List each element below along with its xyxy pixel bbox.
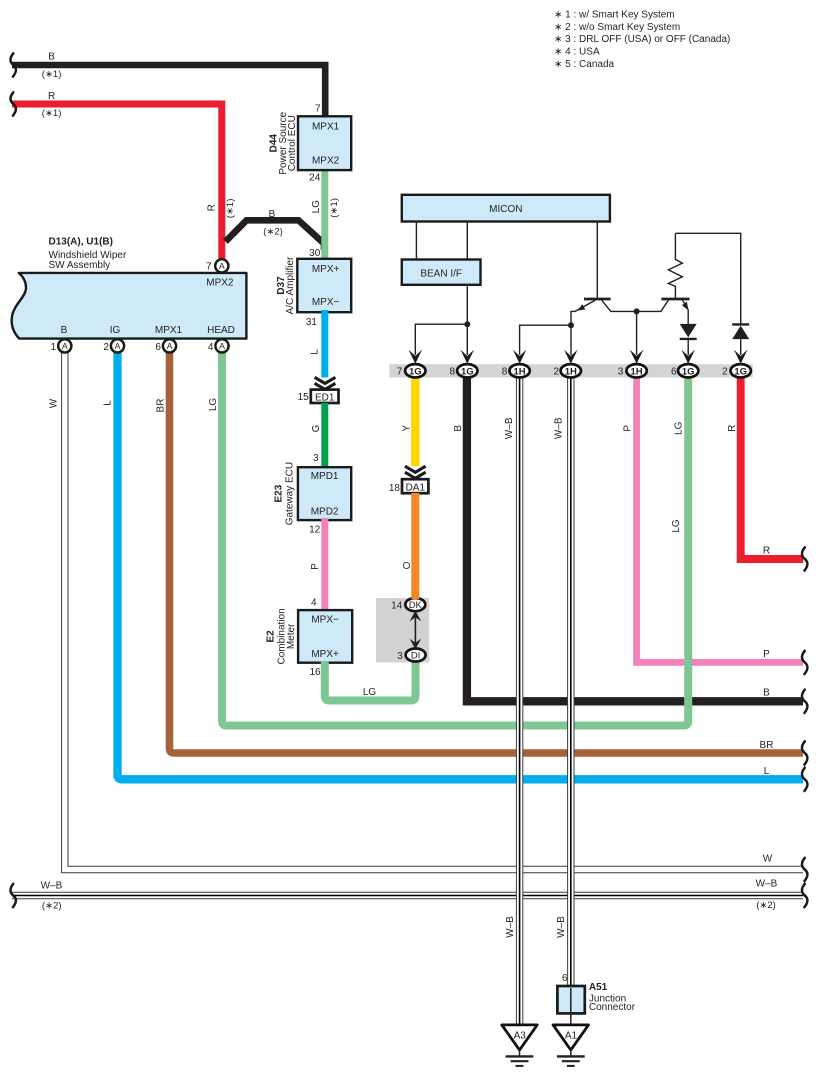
svg-text:3: 3 (397, 651, 403, 662)
svg-text:A1: A1 (565, 1030, 578, 1041)
svg-text:(∗2): (∗2) (263, 227, 283, 238)
svg-text:7: 7 (315, 104, 321, 115)
svg-text:3: 3 (618, 367, 624, 378)
connector oval DI (397, 649, 425, 662)
svg-text:MPX+: MPX+ (311, 649, 339, 660)
svg-text:1G: 1G (682, 366, 695, 377)
svg-text:1G: 1G (461, 366, 474, 377)
svg-text:(∗1): (∗1) (329, 198, 340, 218)
svg-text:MPD1: MPD1 (311, 471, 339, 482)
svg-text:∗ 5 : Canada: ∗ 5 : Canada (554, 59, 615, 70)
svg-text:MPX1: MPX1 (312, 121, 340, 132)
svg-text:Meter: Meter (286, 623, 297, 649)
svg-text:A: A (167, 341, 173, 351)
svg-text:W–B: W–B (505, 916, 516, 938)
wire W-B horizontal (*2) across bottom (12, 879, 803, 912)
connector box D13/U1 Windshield Wiper SW Assembly (12, 273, 247, 339)
wire P pink E23 pin 12 to E2 pin 4 (309, 518, 325, 611)
svg-text:8: 8 (449, 367, 455, 378)
wire R (*1) red from left edge to wiper SW pin 7 (12, 91, 236, 259)
svg-text:15: 15 (298, 392, 310, 403)
connector oval 6(1G) (671, 364, 698, 378)
svg-text:31: 31 (306, 317, 318, 328)
break squiggle right B (802, 690, 808, 713)
svg-text:LG: LG (311, 200, 322, 214)
junction dot base node (634, 308, 640, 314)
pin circle 1(A) wiper B (51, 339, 72, 353)
break squiggle left B (10, 53, 16, 76)
wire G green ED1 to E23 pin 3 (311, 403, 325, 468)
svg-text:A/C Amplifier: A/C Amplifier (285, 256, 296, 314)
box BEAN I/F (402, 260, 481, 285)
svg-text:MPX2: MPX2 (206, 277, 234, 288)
svg-text:A51: A51 (589, 982, 608, 993)
transistor Q2 (661, 299, 689, 325)
svg-text:2: 2 (103, 342, 109, 353)
wire BEAN I/F down to 8(1G) (466, 285, 468, 355)
pin circle 6(A) wiper MPX1 (155, 339, 176, 353)
svg-text:L: L (102, 400, 113, 406)
svg-text:R: R (727, 425, 738, 432)
break squiggle left R (10, 92, 16, 115)
wire LG green wiper HEAD pin 4 to 6(1G) (208, 352, 688, 725)
svg-text:∗ 2 : w/o Smart Key System: ∗ 2 : w/o Smart Key System (554, 22, 680, 33)
svg-text:R: R (763, 546, 770, 557)
bus arrow 7(1G) (409, 350, 423, 364)
svg-text:R: R (48, 91, 55, 102)
ECU box E23 Gateway ECU (274, 462, 352, 525)
svg-text:8: 8 (502, 367, 508, 378)
svg-text:MPX1: MPX1 (155, 325, 183, 336)
svg-text:(∗2): (∗2) (42, 901, 62, 912)
svg-text:P: P (623, 425, 634, 432)
transistor Q1 (571, 299, 668, 325)
box MICON (402, 195, 610, 222)
ground A1 (553, 1025, 588, 1066)
svg-text:W–B: W–B (41, 881, 63, 892)
bus arrow 8(1H) (513, 350, 527, 364)
wire W-B vertical 8(1H) to ground A3 (504, 377, 520, 1025)
svg-text:MPX−: MPX− (311, 614, 339, 625)
connector DA1 (389, 479, 429, 494)
svg-text:P: P (310, 563, 321, 570)
wire resistor top to 2(1G) diode (675, 233, 740, 324)
svg-text:A: A (115, 341, 121, 351)
svg-text:LG: LG (363, 687, 377, 698)
break squiggle right W (802, 858, 808, 881)
wire B black 8(1G) to right edge (453, 377, 803, 701)
wiper SW assembly labels (49, 237, 127, 271)
connector oval 7(1G) (397, 364, 426, 378)
svg-text:1H: 1H (631, 366, 643, 377)
svg-text:Control ECU: Control ECU (287, 115, 298, 171)
svg-text:Gateway ECU: Gateway ECU (285, 462, 296, 525)
wire L blue wiper IG pin 2 to right edge (102, 352, 803, 779)
bus arrow 8(1G) (461, 350, 475, 364)
svg-text:SW Assembly: SW Assembly (49, 260, 111, 271)
svg-text:O: O (402, 561, 413, 569)
svg-text:D13(A), U1(B): D13(A), U1(B) (49, 237, 113, 248)
svg-text:W–B: W–B (556, 916, 567, 938)
svg-text:B: B (453, 425, 464, 432)
svg-text:LG: LG (208, 398, 219, 412)
wire MICON to transistor Q1 collector (596, 222, 598, 298)
svg-text:BEAN I/F: BEAN I/F (420, 269, 462, 280)
svg-text:12: 12 (309, 525, 321, 536)
svg-text:Y: Y (401, 425, 412, 432)
wire Q1 emitter to 8(1H) and 2(1H) (520, 325, 571, 355)
wire W white wiper B pin 1 to right edge (48, 352, 803, 869)
svg-text:P: P (763, 649, 770, 660)
svg-text:4: 4 (311, 597, 317, 608)
bus bar 1G/1H junction block (389, 364, 753, 377)
ECU box D37 A/C Amplifier (276, 256, 351, 314)
break squiggle right BR (802, 741, 808, 764)
svg-text:∗ 1 : w/ Smart Key System: ∗ 1 : w/ Smart Key System (554, 9, 675, 20)
svg-text:18: 18 (389, 483, 401, 494)
svg-text:W: W (763, 854, 773, 865)
wire B (*1) black from left edge to D44 pin 7 (12, 52, 325, 117)
svg-text:DA1: DA1 (406, 483, 426, 494)
svg-text:DK: DK (409, 600, 423, 611)
wire L blue D37 pin 31 to ED1 (306, 310, 325, 378)
pin circle 4(A) wiper HEAD (208, 339, 229, 353)
wire MICON to BEAN I/F right (466, 222, 468, 260)
svg-text:MPX2: MPX2 (312, 155, 340, 166)
svg-text:4: 4 (208, 342, 214, 353)
svg-text:B: B (269, 209, 276, 220)
svg-text:E2: E2 (266, 630, 277, 643)
svg-text:(∗1): (∗1) (42, 108, 62, 119)
wire P pink 3(1H) to right edge (623, 377, 803, 662)
svg-text:24: 24 (309, 173, 321, 184)
svg-text:MICON: MICON (489, 204, 522, 215)
svg-text:MPX+: MPX+ (312, 264, 340, 275)
svg-text:LG: LG (674, 421, 685, 435)
svg-text:LG: LG (671, 519, 682, 533)
svg-text:BR: BR (156, 399, 167, 413)
bus arrow 2(1G) (734, 350, 748, 364)
legend notes (554, 9, 730, 70)
svg-text:(∗1): (∗1) (42, 69, 62, 80)
svg-text:R: R (206, 204, 217, 211)
bus arrow 3(1H) (630, 350, 644, 364)
double arrow between DK and DI (410, 611, 422, 649)
svg-text:(∗1): (∗1) (225, 199, 236, 219)
connector oval DK (391, 598, 425, 611)
svg-text:L: L (310, 349, 321, 355)
svg-text:E23: E23 (274, 484, 285, 502)
wire BR brown wiper MPX1 pin 6 to right edge (156, 352, 804, 753)
svg-text:7: 7 (206, 261, 212, 272)
break squiggle left W-B (10, 884, 16, 907)
svg-text:MPD2: MPD2 (311, 506, 339, 517)
svg-text:1H: 1H (565, 366, 577, 377)
svg-text:∗ 3 : DRL OFF (USA) or OFF (Ca: ∗ 3 : DRL OFF (USA) or OFF (Canada) (554, 34, 730, 45)
ECU box D44 Power Source Control ECU (269, 104, 352, 175)
wire Y yellow 7(1G) to DA1 (401, 377, 415, 466)
junction dot at BEAN branch (464, 321, 470, 327)
ECU box E2 Combination Meter (266, 608, 353, 678)
gray zone around DK DI (376, 598, 429, 662)
connector oval 2(1G) (722, 364, 751, 378)
bus arrow 2(1H) (564, 350, 578, 364)
pin 7(A) circle top of wiper SW (206, 259, 228, 272)
chevron arrow into DA1 (405, 466, 426, 478)
svg-text:3: 3 (313, 453, 319, 464)
svg-text:W: W (48, 398, 59, 408)
connector oval 2(1H) (553, 364, 581, 378)
diode D1 down at 6(1G) (680, 324, 697, 355)
svg-text:6: 6 (155, 342, 161, 353)
svg-text:7: 7 (397, 367, 403, 378)
svg-text:L: L (764, 766, 770, 777)
svg-text:1G: 1G (734, 366, 747, 377)
wire LG (*1) green D44 pin 24 to D37 pin 30 (309, 168, 340, 260)
svg-text:30: 30 (309, 248, 321, 259)
svg-text:B: B (48, 52, 55, 63)
svg-text:ED1: ED1 (315, 392, 335, 403)
diode D2 up at 2(1G) (732, 324, 749, 355)
svg-text:16: 16 (309, 667, 321, 678)
pin circle 2(A) wiper IG (103, 339, 124, 353)
resistor above Q2 (668, 233, 682, 299)
wire W-B vertical 2(1H) to A51 (554, 377, 571, 987)
bus arrow 6(1G) (681, 350, 695, 364)
svg-text:6: 6 (671, 367, 677, 378)
connector oval 3(1H) (618, 364, 647, 378)
svg-text:BR: BR (760, 740, 774, 751)
svg-text:W–B: W–B (756, 879, 778, 890)
svg-text:A: A (219, 341, 225, 351)
svg-text:A3: A3 (514, 1030, 527, 1041)
svg-text:A: A (219, 261, 225, 271)
svg-text:2: 2 (553, 367, 559, 378)
wire branch to 7(1G) (415, 324, 467, 355)
svg-text:G: G (311, 424, 322, 432)
wire base node to 3(1H) (636, 311, 638, 355)
break squiggle right P (802, 651, 808, 674)
ground A3 (502, 1025, 537, 1066)
break squiggle right R (802, 547, 808, 570)
wire MICON to BEAN I/F left (415, 222, 417, 260)
svg-text:1H: 1H (514, 366, 526, 377)
connector oval 8(1H) (502, 364, 530, 378)
svg-text:Connector: Connector (589, 1002, 636, 1013)
wire R red 2(1G) to right edge (727, 377, 803, 559)
svg-text:DI: DI (411, 651, 421, 662)
connector oval 8(1G) (449, 364, 477, 378)
svg-text:IG: IG (110, 325, 121, 336)
break squiggle right W-B (802, 884, 808, 907)
wire B (*2) black jumper from R wire to D37 pin 30 (226, 209, 325, 250)
svg-text:A: A (62, 341, 68, 351)
chevron arrow into ED1 (315, 377, 336, 389)
break squiggle right L (802, 768, 808, 791)
svg-text:MPX−: MPX− (312, 297, 340, 308)
svg-text:2: 2 (722, 367, 728, 378)
junction connector A51 (557, 973, 635, 1025)
junction dot Q1 emitter (568, 322, 574, 328)
svg-text:1G: 1G (409, 366, 422, 377)
wire LG green E2 pin 16 to DI (325, 661, 416, 701)
svg-text:∗ 4 : USA: ∗ 4 : USA (554, 47, 600, 58)
svg-text:W–B: W–B (504, 417, 515, 439)
svg-text:HEAD: HEAD (207, 325, 235, 336)
svg-text:14: 14 (391, 600, 403, 611)
svg-text:B: B (763, 687, 770, 698)
connector ED1 (298, 390, 339, 404)
svg-text:(∗2): (∗2) (756, 900, 776, 911)
wire O orange DA1 to DK (402, 493, 415, 599)
svg-text:1: 1 (51, 342, 57, 353)
svg-text:6: 6 (562, 973, 568, 984)
svg-text:W–B: W–B (554, 417, 565, 439)
svg-text:B: B (61, 325, 68, 336)
